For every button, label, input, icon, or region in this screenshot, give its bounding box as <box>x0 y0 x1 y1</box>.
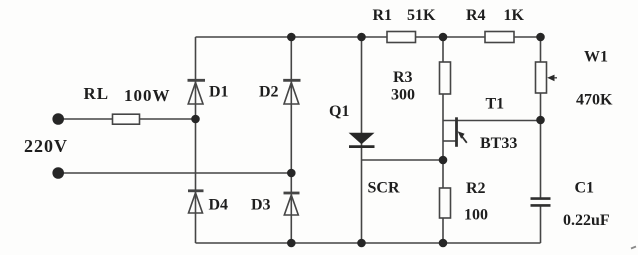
svg-text:470K: 470K <box>576 92 613 109</box>
terminal top <box>52 113 64 125</box>
diode D1 <box>188 80 206 104</box>
diode D3 <box>284 193 300 215</box>
svg-text:R1: R1 <box>373 7 393 24</box>
svg-text:100W: 100W <box>124 86 171 105</box>
svg-text:300: 300 <box>391 87 415 104</box>
svg-text:D3: D3 <box>251 197 271 214</box>
svg-text:W1: W1 <box>584 49 608 66</box>
svg-text:SCR: SCR <box>368 180 400 197</box>
potentiometer W1 <box>536 62 558 93</box>
resistor RL <box>113 114 140 124</box>
svg-text:100: 100 <box>464 207 488 224</box>
wire input bottom (terminal to D2/D3 column) <box>62 172 291 174</box>
wire bottom rail <box>196 242 541 244</box>
node R1-R4-R3 top <box>439 33 448 42</box>
svg-text:RL: RL <box>84 84 110 103</box>
svg-text:D1: D1 <box>209 84 229 101</box>
wire R3-R2 column <box>442 37 444 243</box>
wire input top (terminal to D1 column) <box>62 118 196 120</box>
wire SCR gate <box>362 159 443 161</box>
svg-text:220V: 220V <box>24 136 68 156</box>
node D2 top <box>287 33 296 42</box>
svg-text:R4: R4 <box>466 7 486 24</box>
wire UJT emitter/b2 <box>443 120 541 122</box>
wire SCR column <box>361 37 363 243</box>
svg-text:Q1: Q1 <box>329 103 349 120</box>
resistor R3 <box>440 62 451 94</box>
node R2 bottom <box>439 239 448 248</box>
svg-text:51K: 51K <box>407 7 436 24</box>
scan artifact bottom-right <box>631 247 636 249</box>
diode D2 <box>283 80 300 104</box>
wire D2-D3 column <box>290 37 292 243</box>
wire W1-C1 column upper <box>540 37 542 198</box>
node D1-RL junction <box>191 115 200 124</box>
node SCR anode top <box>357 33 366 42</box>
wire UJT b1 stub <box>443 140 457 142</box>
svg-text:R2: R2 <box>466 180 486 197</box>
svg-text:1K: 1K <box>504 7 525 24</box>
svg-text:D2: D2 <box>259 84 279 101</box>
svg-text:R3: R3 <box>393 69 413 86</box>
node W1 top <box>536 33 545 42</box>
node D2-D3 input junction <box>287 169 296 178</box>
svg-text:T1: T1 <box>486 96 505 113</box>
node SCR gate junction <box>439 156 448 165</box>
svg-text:C1: C1 <box>575 180 595 197</box>
resistor R1 <box>387 32 416 43</box>
node W1-C1 emitter junction <box>536 116 545 125</box>
wire top rail <box>196 36 541 38</box>
resistor R2 <box>440 188 451 218</box>
node D3 bottom <box>287 239 296 248</box>
resistor R4 <box>485 32 514 43</box>
thyristor Q1 SCR <box>349 133 375 147</box>
node SCR cathode bottom <box>357 239 366 248</box>
terminal bottom <box>52 167 64 179</box>
diode D4 <box>188 191 204 213</box>
capacitor C1 <box>531 199 551 206</box>
wire D1-D4 column <box>195 37 197 243</box>
wire W1-C1 column lower <box>540 207 542 244</box>
svg-text:0.22uF: 0.22uF <box>563 212 610 229</box>
svg-text:BT33: BT33 <box>480 135 517 152</box>
svg-text:D4: D4 <box>209 197 229 214</box>
transistor T1 (UJT BT33) <box>457 117 467 147</box>
